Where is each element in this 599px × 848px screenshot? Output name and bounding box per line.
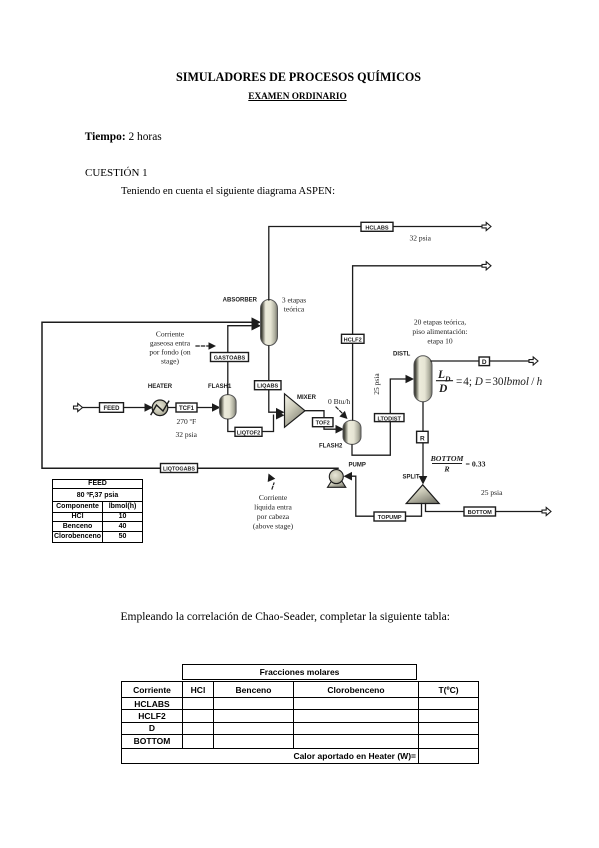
stream label TOPUMP [374,512,406,521]
svg-text:por cabeza: por cabeza [257,512,290,521]
svg-text:32 psia: 32 psia [410,234,432,243]
svg-text:ABSORBER: ABSORBER [223,298,258,304]
arrowhead GASTOABS into absorber [252,321,262,331]
heater HEATER [148,384,173,416]
stream label D [479,357,490,366]
svg-text:D: D [438,383,448,395]
svg-text:GASTOABS: GASTOABS [214,356,246,362]
svg-text:32 psia: 32 psia [176,430,198,439]
open arrow HCLABS exit [482,222,491,230]
wire distl bottom to split [422,403,424,477]
wire distl top to D exit [431,360,529,362]
wire mixer to flash2 (TOF2) [305,411,336,430]
svg-text:HEATER: HEATER [148,384,173,390]
svg-text:HCLABS: HCLABS [365,225,389,231]
svg-text:líquida entra: líquida entra [254,503,292,512]
svg-text:= 0.33: = 0.33 [466,460,486,469]
open arrow HCLF2 exit [482,262,491,270]
chao-seader line [121,611,450,623]
svg-text:0 Btu/h: 0 Btu/h [328,397,351,406]
stream label GASTOABS [211,353,249,362]
annotation 0 Btu/h + dashed arrow [328,397,351,419]
svg-text:LIQTOGABS: LIQTOGABS [163,467,195,473]
svg-text:L: L [437,369,445,381]
stream label LIQTOF2 [235,427,262,436]
svg-text:DISTL: DISTL [393,352,411,358]
svg-text:LIQTOF2: LIQTOF2 [237,430,261,436]
annotation corriente liquida + dashed arrow [253,474,294,531]
stream label LTODIST [375,414,405,422]
feed table [52,479,143,543]
svg-text:(above stage): (above stage) [253,522,294,531]
wire absorber bottom to mixer (LIQABS) [269,346,277,412]
absorber column ABSORBER [223,298,278,346]
wire flash2 bottom to distl (LTODIST) [352,379,406,455]
open arrow D exit [529,357,538,365]
arrowhead LIQTOF2 into mixer [276,411,285,420]
svg-text:= 4; D = 30lbmol / h: = 4; D = 30lbmol / h [456,376,543,388]
svg-text:teórica: teórica [284,305,305,314]
stream label BOTTOM [464,507,496,516]
mixer MIXER [285,394,317,428]
stream label TCF1 [176,403,197,412]
wire heater to flash1 [168,407,214,409]
stream label LIQTOGABS [161,464,198,473]
wire split to BOTTOM exit [426,504,543,512]
arrowhead recycle into absorber [252,317,262,327]
svg-text:25 psia: 25 psia [372,373,381,395]
svg-text:gaseosa entra: gaseosa entra [150,339,191,348]
splitter SPLIT [403,475,440,504]
svg-text:HCLF2: HCLF2 [344,337,362,343]
svg-text:BOTTOM: BOTTOM [468,510,492,516]
wire absorber top to HCLABS exit [269,227,482,301]
svg-text:FEED: FEED [103,406,120,412]
distillation column DISTL [393,352,432,402]
svg-text:etapa 10: etapa 10 [427,337,452,346]
svg-text:PUMP: PUMP [349,463,366,469]
svg-text:R: R [420,435,425,442]
arrowhead TOF2 into flash2 [336,425,345,434]
wire split to pump (TOPUMP) [351,476,421,516]
math LD/D = 4 [437,369,543,395]
stream label TOF2 [313,418,334,427]
svg-text:por fondo (on: por fondo (on [149,348,190,357]
feed source open arrow [74,403,83,411]
wire flash2 top to HCLF2 exit [353,266,482,420]
svg-text:3 etapas: 3 etapas [282,296,306,305]
stream label R [417,431,429,443]
wire flash1 top to absorber (GASTOABS) [228,326,251,394]
svg-text:FLASH2: FLASH2 [319,444,343,450]
subtitle [0,92,595,102]
svg-text:D: D [482,359,487,366]
svg-text:TOF2: TOF2 [316,421,330,427]
flash drum FLASH2 [319,420,361,449]
stream label LIQABS [255,381,282,390]
arrowhead TOPUMP into pump [344,472,353,481]
flash drum FLASH1 [208,384,236,419]
intro line [121,186,335,197]
arrowhead into flash1 [212,403,221,412]
bottom fractions table [120,663,122,665]
svg-text:20 etapas teórica,: 20 etapas teórica, [414,318,466,327]
tiempo line [85,131,162,143]
arrowhead into split [419,476,428,485]
arrowhead into heater [145,403,154,412]
pump PUMP [328,463,366,488]
svg-text:TOPUMP: TOPUMP [378,515,402,521]
svg-text:piso alimentación:: piso alimentación: [412,327,467,336]
svg-text:R: R [443,465,449,474]
svg-text:Corriente: Corriente [156,330,185,339]
svg-text:Corriente: Corriente [259,493,288,502]
svg-text:TCF1: TCF1 [179,406,195,412]
wire feed source to heater [82,407,146,409]
arrowhead LTODIST into distl [406,375,415,384]
math BOTTOM/R = 0.33 [430,454,486,474]
svg-text:BOTTOM: BOTTOM [430,454,465,463]
svg-text:270 ºF: 270 ºF [177,417,197,426]
svg-text:LIQABS: LIQABS [257,384,278,390]
cuestion 1 [85,167,148,179]
annotation 20 etapas teorica [412,318,467,346]
stream label HCLABS [361,222,393,231]
stream label HCLF2 [342,334,365,343]
annotation corriente gaseosa + dashed arrow [149,330,216,366]
wire flash1 bottom to mixer (LIQTOF2) [228,415,274,431]
svg-text:MIXER: MIXER [297,395,317,401]
title [0,70,597,85]
svg-text:LTODIST: LTODIST [377,416,401,422]
open arrow BOTTOM exit [542,507,551,515]
stream label FEED [100,403,124,413]
svg-text:25 psia: 25 psia [481,488,503,497]
arrowhead LIQABS into mixer [276,408,285,417]
svg-text:stage): stage) [161,357,179,366]
wire recycle LIQTOGABS (pump to absorber top) [42,322,338,468]
svg-text:SPLIT: SPLIT [403,475,420,481]
